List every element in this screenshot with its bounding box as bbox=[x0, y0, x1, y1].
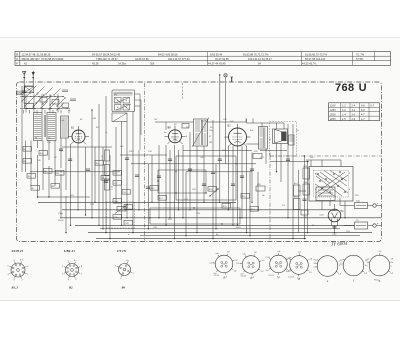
wire bbox=[280, 144, 282, 183]
wire bbox=[196, 146, 198, 233]
capacitor C8 bbox=[202, 183, 206, 185]
table label column divider bbox=[19, 52, 21, 66]
wire transformer bottom bbox=[260, 150, 287, 152]
rectifier tube B4 CY1N bbox=[328, 209, 341, 222]
wire bbox=[321, 201, 323, 210]
wire tuning row bbox=[155, 121, 194, 123]
svg-text:8,65 55,44: 8,65 55,44 bbox=[210, 52, 223, 56]
resistor C42 bbox=[122, 190, 131, 195]
wire bbox=[212, 120, 214, 239]
switch contact dots bbox=[22, 96, 23, 97]
speaker assembly dashed box bbox=[270, 122, 297, 157]
connector bottom-view c bbox=[270, 255, 288, 273]
resistor R5 bbox=[44, 169, 53, 174]
capacitor C16 bbox=[240, 175, 244, 177]
svg-text:5: 5 bbox=[8, 266, 9, 268]
wire bbox=[225, 83, 227, 164]
fuse S1a bbox=[355, 203, 368, 209]
resistor Re2 bbox=[294, 199, 301, 210]
svg-text:5: 5 bbox=[330, 199, 331, 201]
section divider dash-dot at x=145 bbox=[144, 83, 146, 241]
svg-text:3: 3 bbox=[315, 189, 316, 191]
table cell divider bbox=[374, 52, 376, 61]
svg-text:4: 4 bbox=[128, 261, 129, 263]
fuse S2a bbox=[355, 222, 368, 229]
aerial terminal A1 bbox=[23, 72, 25, 87]
tube B1 UCH21 mixer bbox=[72, 130, 85, 143]
switch wafer diagonals bbox=[22, 93, 30, 101]
earth terminal A2 arrow bbox=[32, 71, 34, 86]
wire bbox=[94, 147, 96, 202]
wire rectifier to fuse b bbox=[344, 225, 355, 227]
svg-text:6-7: 6-7 bbox=[371, 105, 375, 108]
capacitor C10 bbox=[231, 183, 235, 185]
svg-text:2: 2 bbox=[349, 173, 350, 175]
resistor R9 bbox=[95, 161, 104, 166]
osc unit inner switch boxes bbox=[115, 98, 122, 104]
wire bbox=[91, 110, 93, 218]
svg-text:C1-C4: C1-C4 bbox=[288, 277, 293, 279]
voltage selector plate bbox=[309, 167, 353, 202]
wire bbox=[265, 149, 267, 164]
oscillator coil unit box bbox=[112, 90, 135, 112]
wire bbox=[228, 146, 230, 210]
capacitor C3 bbox=[104, 180, 108, 182]
wire bbox=[249, 172, 251, 236]
component value table border bbox=[15, 52, 391, 66]
wire bbox=[48, 166, 50, 197]
wire bbox=[138, 150, 140, 210]
svg-text:5%: 5% bbox=[282, 205, 285, 207]
svg-text:5: 5 bbox=[62, 266, 63, 268]
wire bbox=[232, 146, 234, 225]
bus wire y229 bbox=[100, 228, 340, 230]
bus wire y218 chassis bbox=[62, 217, 381, 219]
wire bbox=[241, 146, 243, 218]
svg-text:57,5%: 57,5% bbox=[356, 57, 364, 61]
capacitor C11 bbox=[250, 168, 254, 170]
svg-text:1: 1 bbox=[27, 274, 28, 276]
dial lamp bbox=[224, 74, 227, 77]
vertical resistor chain R31 bbox=[105, 165, 110, 176]
svg-text:1-5: 1-5 bbox=[342, 118, 346, 121]
svg-text:3: 3 bbox=[68, 279, 69, 281]
wire bbox=[189, 132, 191, 210]
capacitor C15 bbox=[157, 175, 161, 177]
svg-text:3: 3 bbox=[115, 266, 116, 268]
svg-text:5: 5 bbox=[367, 265, 368, 267]
vertical resistor chain R32 bbox=[105, 179, 110, 190]
wire bbox=[237, 146, 239, 225]
wire fuse to pin a bbox=[368, 205, 373, 207]
RF coil L3 bbox=[61, 116, 69, 138]
svg-text:3a2 5c5: 3a2 5c5 bbox=[201, 120, 209, 122]
svg-text:2-4: 2-4 bbox=[352, 105, 356, 108]
wire detector bbox=[186, 171, 252, 173]
resistor R16 bbox=[241, 194, 250, 199]
resistor R19 bbox=[303, 184, 310, 195]
svg-text:3-4: 3-4 bbox=[367, 262, 370, 264]
selector inner contact block bbox=[316, 187, 335, 201]
mains pin b bbox=[373, 224, 376, 227]
resistor Re1 bbox=[294, 185, 301, 196]
svg-text:1: 1 bbox=[133, 273, 134, 275]
svg-text:S10%: S10% bbox=[58, 220, 64, 222]
resistor R3 bbox=[39, 151, 48, 156]
wire bbox=[178, 150, 180, 210]
svg-text:7-8: 7-8 bbox=[391, 259, 394, 261]
switch link bars bbox=[20, 96, 64, 98]
resistor C46 bbox=[113, 215, 122, 220]
resistor R15 bbox=[222, 204, 231, 209]
svg-text:3: 3 bbox=[13, 280, 14, 282]
wire bbox=[174, 145, 176, 239]
svg-text:1: 1 bbox=[81, 274, 82, 276]
svg-text:7486,492 71 45,67: 7486,492 71 45,67 bbox=[96, 57, 118, 61]
wire B3 anode to T2 bbox=[247, 143, 259, 145]
svg-text:3-4: 3-4 bbox=[352, 109, 356, 112]
svg-text:61,65,66,70-73,7%: 61,65,66,70-73,7% bbox=[305, 52, 328, 56]
wire bbox=[60, 174, 62, 218]
RF coil L2 bbox=[47, 113, 56, 141]
svg-text:45,38: 45,38 bbox=[92, 61, 99, 65]
schematic outer frame (dash-dot) bbox=[17, 82, 382, 242]
svg-text:Piezo: Piezo bbox=[374, 280, 380, 282]
antenna section divider dashed bbox=[182, 83, 184, 100]
output transformer T2 windings bbox=[259, 127, 268, 150]
wire bbox=[334, 226, 336, 233]
svg-text:4-5: 4-5 bbox=[340, 263, 343, 265]
wire bbox=[321, 160, 323, 167]
wire bbox=[65, 138, 67, 190]
switch housing box bbox=[25, 104, 34, 109]
tube B3 UBL21 output bbox=[229, 128, 247, 146]
svg-text:B2: B2 bbox=[68, 286, 73, 290]
capacitor C12 bbox=[286, 158, 290, 160]
resistor R10 bbox=[101, 176, 110, 181]
svg-text:B1, 3: B1, 3 bbox=[11, 286, 19, 290]
wire bbox=[105, 96, 107, 233]
wire bbox=[246, 119, 248, 124]
wire tube1 to osc unit bbox=[62, 146, 112, 148]
svg-text:1-2: 1-2 bbox=[342, 105, 346, 108]
wire bbox=[276, 144, 278, 172]
svg-text:42,65 67,56: 42,65 67,56 bbox=[135, 57, 149, 61]
svg-text:UBL 21: UBL 21 bbox=[64, 249, 75, 253]
antenna coupling cap bbox=[23, 89, 25, 95]
svg-text:6: 6 bbox=[13, 260, 14, 262]
svg-text:932,131,57 577,63: 932,131,57 577,63 bbox=[168, 57, 190, 61]
bus wire y202 bbox=[38, 201, 236, 203]
capacitor C5 bbox=[146, 186, 150, 188]
resistor C37 bbox=[113, 181, 122, 186]
wire bbox=[121, 122, 123, 226]
wire bbox=[54, 141, 56, 187]
wire bbox=[261, 123, 263, 127]
connector bottom-view g bbox=[369, 255, 390, 276]
wire bbox=[251, 153, 253, 203]
capacitor C9 bbox=[218, 158, 222, 160]
svg-text:200V: 200V bbox=[330, 113, 336, 116]
RF coil L1 bbox=[34, 113, 43, 141]
wire bbox=[292, 124, 294, 239]
wire output top bbox=[247, 122, 263, 124]
capacitor C17 bbox=[333, 225, 337, 227]
svg-text:1: 1 bbox=[315, 174, 316, 176]
wire left return bbox=[38, 196, 91, 198]
resistor R4 bbox=[27, 174, 36, 179]
svg-text:C: C bbox=[16, 57, 18, 61]
svg-text:6-8: 6-8 bbox=[361, 109, 365, 112]
wire lamp feed bbox=[219, 75, 221, 121]
resistor R8 bbox=[51, 184, 60, 189]
wire bbox=[182, 145, 184, 218]
wire bbox=[287, 124, 289, 218]
volume control dashed box bbox=[107, 202, 135, 228]
svg-text:C-13: C-13 bbox=[112, 186, 114, 190]
connector bottom-view b bbox=[242, 256, 260, 274]
mains pin a bbox=[373, 204, 376, 207]
capacitor C19 bbox=[211, 171, 215, 173]
wire bbox=[21, 86, 23, 172]
svg-text:56,57,58 102-110: 56,57,58 102-110 bbox=[305, 57, 326, 61]
iron core lines bbox=[43, 115, 45, 137]
svg-text:6: 6 bbox=[68, 260, 69, 262]
connector bottom-view a bbox=[215, 255, 233, 273]
svg-text:12,34,57 48, 51,56,88,39: 12,34,57 48, 51,56,88,39 bbox=[22, 52, 51, 56]
wire bbox=[151, 155, 153, 202]
osc unit side stubs bbox=[135, 93, 141, 95]
loudspeaker bbox=[273, 129, 288, 144]
wire AF coupling bbox=[131, 163, 256, 165]
switch vertical drops bbox=[23, 110, 25, 114]
resistor C44 bbox=[113, 199, 122, 204]
wire HT rail at x=298 bbox=[298, 170, 300, 233]
wire speaker feed bbox=[262, 122, 284, 124]
svg-text:4-7: 4-7 bbox=[361, 113, 365, 116]
svg-text:768U: 768U bbox=[335, 82, 367, 94]
svg-text:4%: 4% bbox=[96, 127, 99, 129]
capacitor C18 bbox=[302, 198, 306, 200]
svg-text:1-2: 1-2 bbox=[367, 259, 370, 261]
tone switch lever bbox=[210, 189, 218, 196]
resistor R13 bbox=[158, 196, 167, 201]
svg-text:2: 2 bbox=[75, 279, 76, 281]
wire bbox=[42, 141, 44, 191]
bus wire y236 bbox=[140, 235, 360, 237]
svg-text:103,131,12 43,45,47: 103,131,12 43,45,47 bbox=[248, 57, 272, 61]
wire bbox=[304, 156, 306, 239]
wire bbox=[269, 153, 271, 157]
svg-text:34,36a: 34,36a bbox=[118, 61, 126, 65]
resistor R12 bbox=[150, 186, 159, 191]
svg-text:586,51,482 907, 76,54,58,39 5: 586,51,482 907, 76,54,58,39 5,5830 bbox=[22, 57, 64, 61]
capacitor C1 bbox=[68, 158, 72, 160]
resistor R2 bbox=[23, 159, 32, 164]
svg-text:2: 2 bbox=[21, 280, 22, 282]
capacitor C6 bbox=[168, 158, 172, 160]
svg-text:110V: 110V bbox=[330, 105, 336, 108]
power section boundary dash-dot horizontal bbox=[270, 155, 381, 157]
capacitor C14 bbox=[125, 157, 129, 159]
svg-text:6-8: 6-8 bbox=[361, 105, 365, 108]
wire selector to fuse a bbox=[340, 205, 355, 207]
svg-text:8: 8 bbox=[27, 266, 28, 268]
osc trimmer unit box bbox=[112, 113, 127, 122]
svg-text:1-4: 1-4 bbox=[342, 113, 346, 116]
wire bbox=[310, 160, 312, 167]
junction dots on AF loops bbox=[175, 171, 176, 172]
wire gang drops bbox=[165, 122, 167, 130]
wire loop feedback bbox=[150, 208, 240, 224]
wire bbox=[132, 112, 134, 233]
wire bbox=[85, 147, 87, 215]
svg-text:F: F bbox=[16, 61, 18, 65]
switch small boxes bbox=[40, 98, 47, 103]
junction dots bbox=[60, 217, 61, 218]
svg-text:44,35 45,74,: 44,35 45,74, bbox=[302, 61, 317, 65]
svg-text:4: 4 bbox=[8, 274, 9, 276]
wire loop AF coupling bbox=[176, 156, 236, 200]
capacitor C62 box bbox=[253, 154, 262, 159]
resistor R17 bbox=[250, 207, 259, 212]
svg-text:8: 8 bbox=[81, 266, 82, 268]
smoothing box bbox=[301, 210, 308, 215]
bus wire y225 bbox=[75, 224, 355, 226]
wire IF coupling long bbox=[183, 150, 252, 152]
selector lattice diagonals bbox=[316, 172, 345, 193]
table cell divider bbox=[352, 52, 354, 66]
waveband switch S1 contacts bbox=[25, 87, 34, 93]
svg-text:45,47,63 56: 45,47,63 56 bbox=[215, 57, 229, 61]
svg-text:220V: 220V bbox=[330, 118, 336, 121]
svg-text:4: 4 bbox=[62, 274, 63, 276]
svg-text:81,63,88 76,73,72,7%: 81,63,88 76,73,72,7% bbox=[243, 52, 269, 56]
hum coil bbox=[289, 135, 295, 145]
power section boundary dash-dot vertical bbox=[269, 156, 271, 241]
svg-text:1-3: 1-3 bbox=[342, 109, 346, 112]
resistor R18 bbox=[303, 168, 310, 179]
svg-text:JY 6004: JY 6004 bbox=[331, 242, 348, 248]
svg-text:C1-C4: C1-C4 bbox=[268, 275, 273, 277]
wire bbox=[65, 196, 67, 233]
svg-text:75, 7%: 75, 7% bbox=[356, 52, 365, 56]
wire bbox=[165, 145, 167, 225]
wire power vertical join bbox=[299, 190, 307, 192]
wire osc section bbox=[120, 154, 167, 156]
wire bbox=[246, 146, 248, 233]
bus wire y239 bbox=[96, 238, 306, 240]
svg-text:2%: 2% bbox=[296, 130, 299, 132]
wire AVC line bbox=[30, 171, 120, 173]
resistor C48 bbox=[124, 221, 133, 226]
svg-text:2-6: 2-6 bbox=[352, 118, 356, 121]
connector bottom-view e bbox=[317, 256, 338, 277]
svg-text:4-7: 4-7 bbox=[361, 118, 365, 121]
wire bbox=[25, 141, 27, 172]
wire loop tone network bbox=[158, 170, 206, 193]
wire bbox=[98, 104, 100, 225]
resistor R11 bbox=[124, 205, 133, 210]
svg-text:125V: 125V bbox=[330, 109, 336, 112]
wire bbox=[109, 155, 111, 239]
svg-text:a-b: a-b bbox=[340, 260, 343, 262]
svg-text:2: 2 bbox=[120, 278, 121, 280]
resistor C47 bbox=[113, 171, 122, 176]
wire bbox=[169, 150, 171, 218]
vertical resistor chain R30 bbox=[105, 150, 110, 161]
wire bbox=[185, 172, 187, 236]
svg-text:B4: B4 bbox=[121, 286, 126, 290]
svg-text:C56: C56 bbox=[314, 266, 317, 268]
table cell divider bbox=[301, 52, 303, 66]
wire heater chain bbox=[270, 161, 309, 163]
bus wire y233 bbox=[88, 232, 372, 234]
table row separator 2 bbox=[15, 60, 391, 62]
IF transformer T1 bbox=[194, 119, 208, 146]
wire bbox=[70, 144, 72, 225]
wire bbox=[257, 172, 259, 210]
svg-text:CY 1N: CY 1N bbox=[117, 249, 127, 253]
wire mains top bbox=[306, 159, 341, 161]
wire bbox=[37, 155, 39, 197]
connector bottom-view f bbox=[343, 255, 364, 276]
svg-text:Re: Re bbox=[391, 262, 393, 264]
T1 tuning arrow bbox=[192, 118, 209, 148]
resistor R1 bbox=[23, 147, 32, 152]
capacitor C4 bbox=[135, 174, 139, 176]
svg-text:84 95,57 58,54,34,52 45: 84 95,57 58,54,34,52 45 bbox=[92, 52, 121, 56]
svg-text:M: M bbox=[269, 139, 271, 141]
coupling small caps row bbox=[62, 89, 68, 91]
svg-text:UCH 21: UCH 21 bbox=[12, 249, 24, 253]
svg-text:R: R bbox=[16, 52, 18, 56]
connector bottom-view d bbox=[290, 256, 309, 275]
terminal mark bbox=[231, 77, 233, 82]
svg-text:44,37-44,43,46: 44,37-44,43,46 bbox=[208, 61, 226, 65]
svg-text:306: 306 bbox=[150, 61, 155, 65]
svg-text:84,63 4,85 58,56: 84,63 4,85 58,56 bbox=[158, 52, 178, 56]
padder box bbox=[182, 124, 189, 129]
wire bbox=[37, 141, 39, 149]
svg-text:C1-C4: C1-C4 bbox=[214, 275, 219, 277]
wire bbox=[215, 164, 217, 229]
svg-text:7: 7 bbox=[22, 260, 23, 262]
wire bbox=[340, 160, 342, 167]
capacitor C13 bbox=[59, 148, 63, 150]
resistor R20 box bbox=[256, 186, 265, 191]
wire bbox=[102, 147, 104, 229]
wire bbox=[203, 146, 205, 202]
table row separator 1 bbox=[15, 55, 391, 57]
wire fuse to pin b bbox=[368, 225, 373, 227]
selector tap contacts bbox=[317, 173, 319, 175]
wire bbox=[126, 122, 128, 218]
antenna lead-in heavy wire bbox=[23, 86, 25, 104]
svg-text:3-6: 3-6 bbox=[352, 113, 356, 116]
svg-text:C1-C4: C1-C4 bbox=[241, 276, 246, 278]
voltage adjustment table bbox=[329, 103, 380, 121]
svg-text:1M: 1M bbox=[209, 142, 212, 144]
wire bbox=[30, 141, 32, 187]
wire bbox=[158, 145, 160, 218]
resistor R14 bbox=[208, 187, 217, 192]
svg-text:TY: TY bbox=[114, 94, 117, 97]
wire bbox=[48, 141, 50, 161]
wire bbox=[60, 138, 62, 168]
svg-text:7: 7 bbox=[75, 261, 76, 263]
capacitor C2 bbox=[86, 168, 90, 170]
